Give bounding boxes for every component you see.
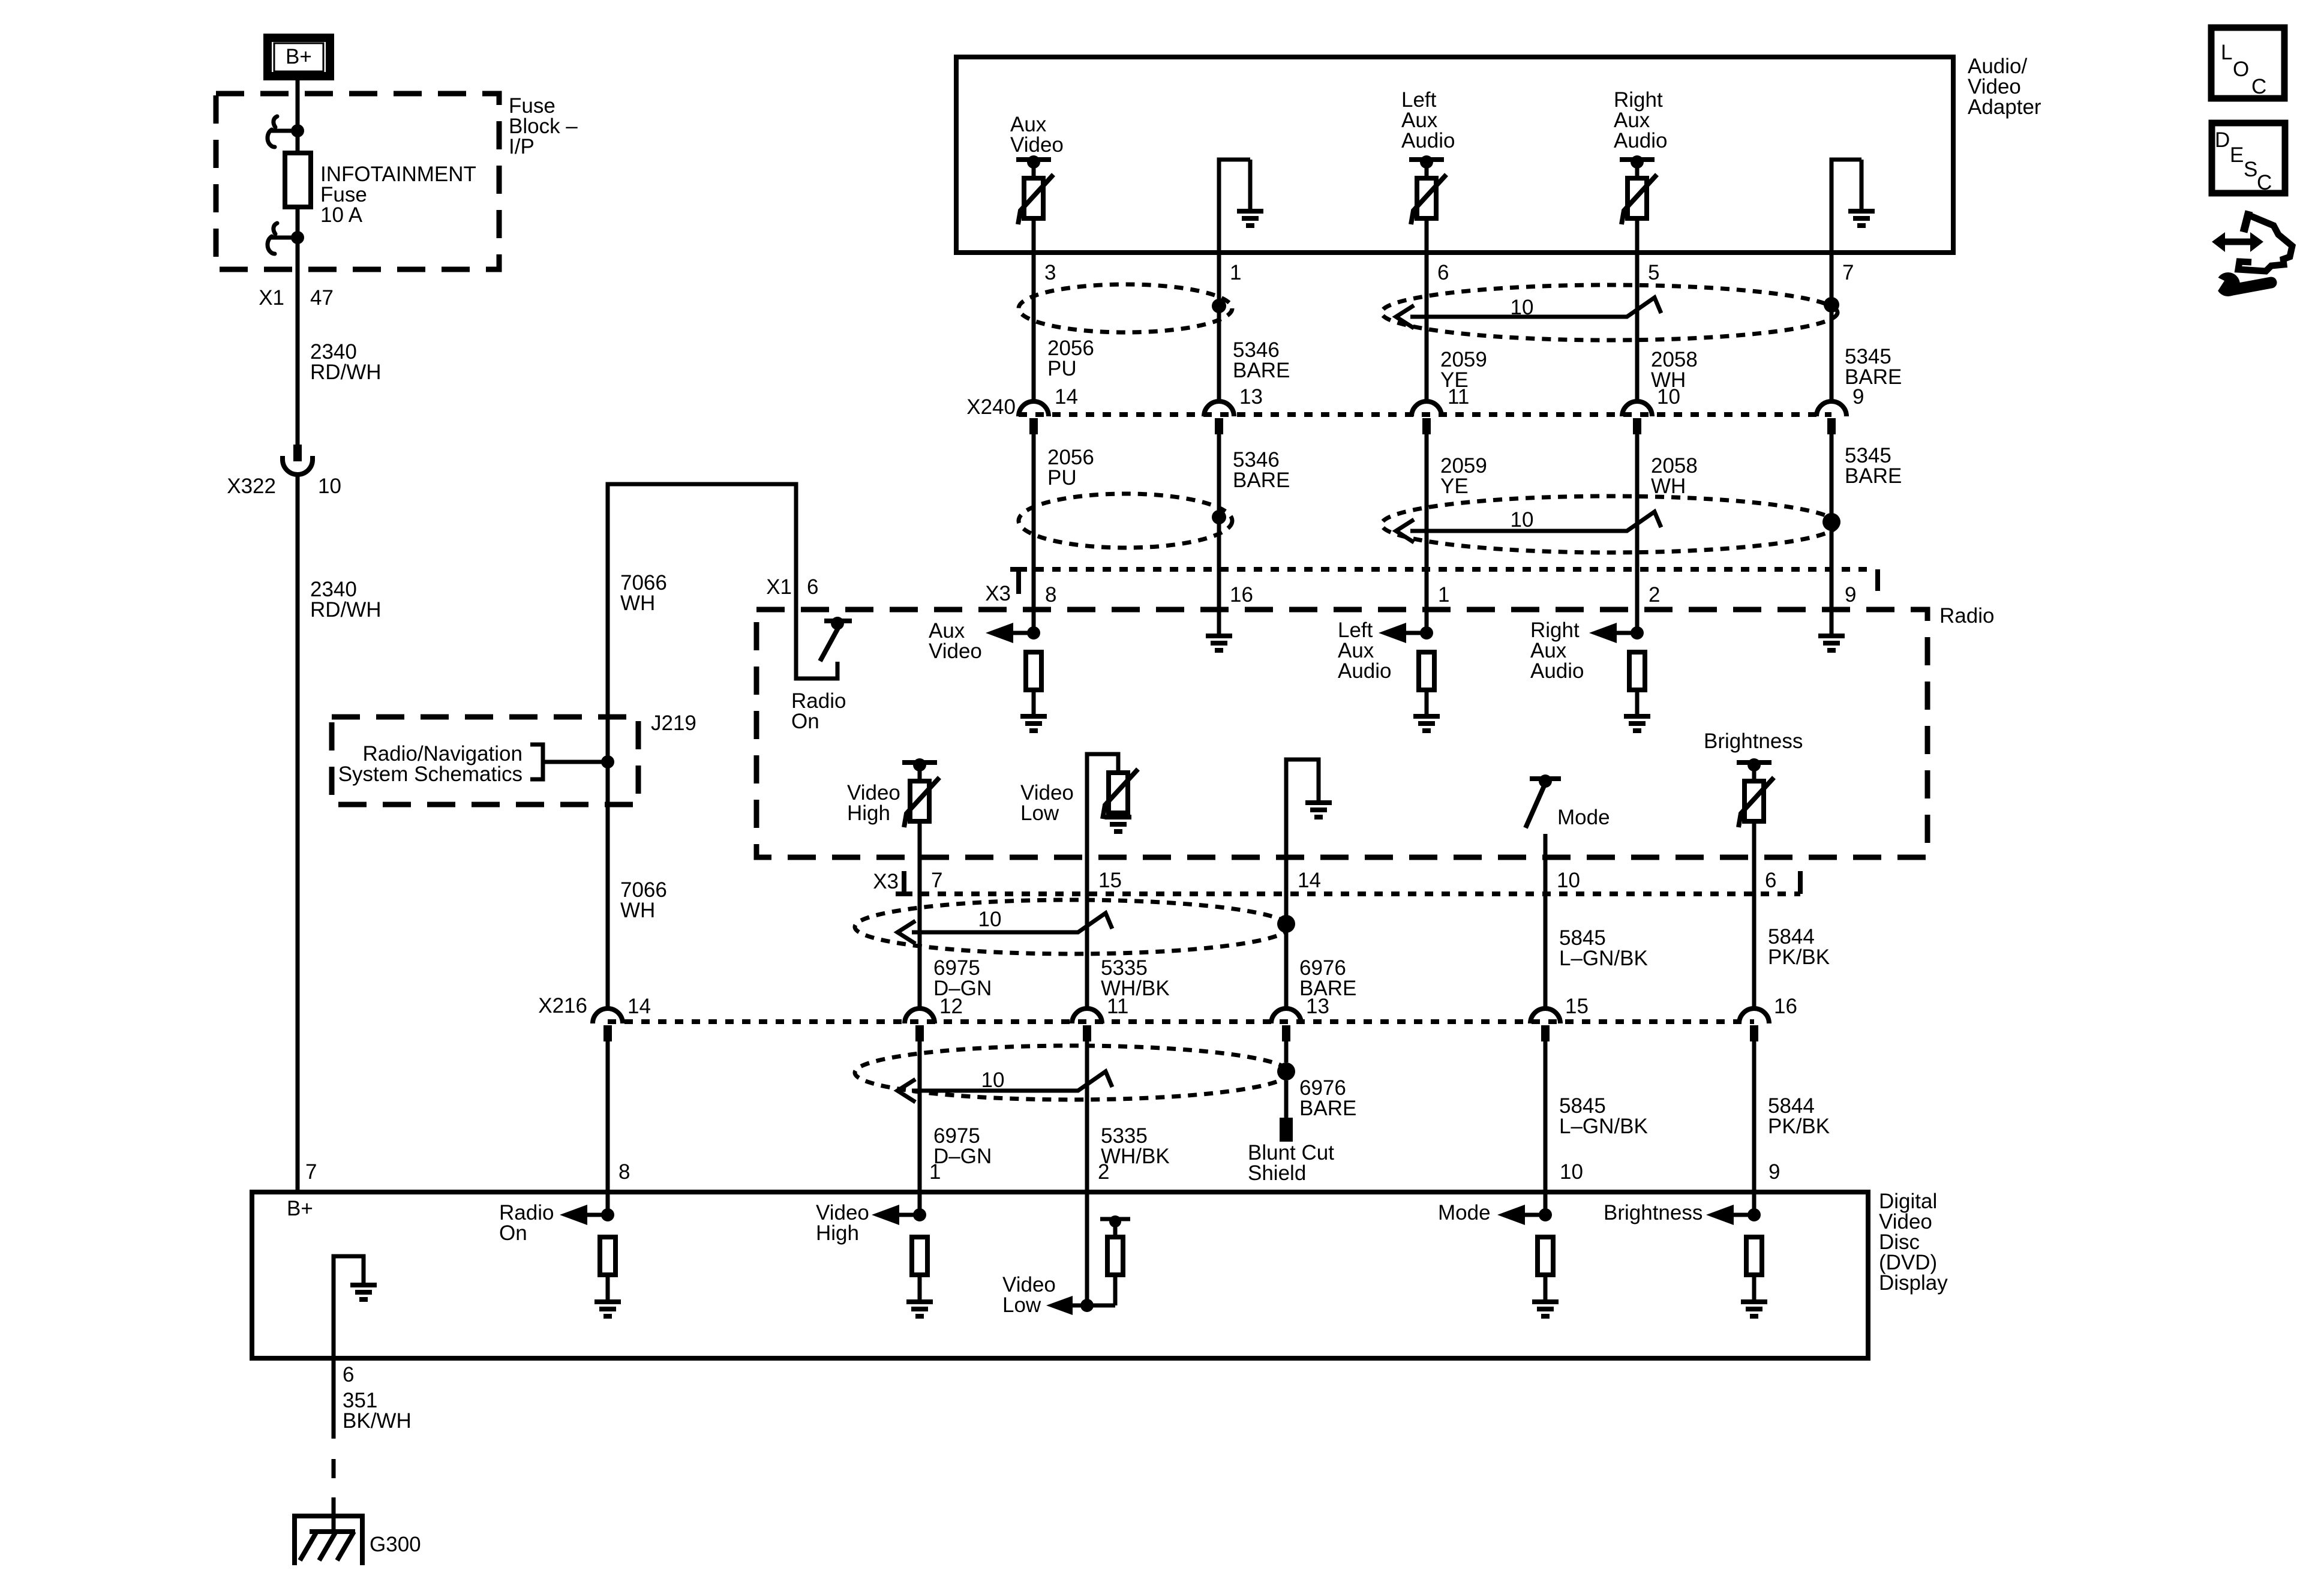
svg-text:C: C (2251, 75, 2266, 98)
svg-text:14: 14 (1298, 869, 1321, 892)
wire left aux audio pin 6 (1425, 218, 1429, 400)
svg-text:Video: Video (1010, 133, 1064, 157)
svg-text:6: 6 (343, 1363, 354, 1386)
connector row X3 (radio top) dotted line (1019, 567, 1867, 572)
drain wire symbol (video upper) (897, 913, 1112, 944)
svg-text:7: 7 (931, 869, 942, 892)
svg-text:X216: X216 (538, 994, 587, 1017)
ground return wire pin 7 inside adapter (1831, 160, 1861, 400)
svg-text:9: 9 (1768, 1160, 1780, 1184)
connector X240 cavity 13 (1204, 401, 1234, 416)
svg-text:10: 10 (978, 908, 1002, 931)
resistor right aux audio termination (radio) (1629, 652, 1645, 690)
svg-text:2: 2 (1649, 583, 1660, 607)
connector X216 cavity 12 (905, 1008, 935, 1023)
svg-text:7: 7 (305, 1160, 317, 1184)
terminal dot video low bar (1109, 1215, 1121, 1227)
svg-text:Mode: Mode (1557, 806, 1610, 829)
svg-text:6: 6 (807, 575, 818, 599)
svg-text:1: 1 (1230, 261, 1241, 284)
svg-text:RD/WH: RD/WH (310, 598, 382, 622)
signal arrow Mode (DVD) (1497, 1205, 1552, 1225)
wire 5346 BARE to radio ground (1217, 633, 1221, 635)
svg-text:WH: WH (620, 592, 655, 615)
svg-text:10: 10 (1657, 385, 1680, 409)
svg-text:10: 10 (318, 475, 341, 498)
resistor brightness input (DVD) (1746, 1237, 1762, 1275)
svg-text:47: 47 (310, 286, 334, 310)
svg-text:BK/WH: BK/WH (343, 1409, 412, 1433)
repair legend icon: double arrow (2212, 232, 2263, 252)
svg-text:Radio: Radio (1939, 604, 1994, 628)
svg-text:PU: PU (1047, 357, 1077, 380)
svg-text:PK/BK: PK/BK (1768, 1115, 1830, 1138)
svg-text:C: C (2257, 171, 2272, 194)
LOC legend box (2211, 28, 2284, 98)
svg-text:X3: X3 (985, 582, 1011, 605)
svg-text:RD/WH: RD/WH (310, 361, 382, 384)
wire video low X3 pin 15 (1087, 754, 1118, 1007)
svg-text:9: 9 (1852, 385, 1864, 409)
wire fuse block exit pin 47 (296, 236, 300, 445)
svg-text:L–GN/BK: L–GN/BK (1559, 1115, 1648, 1138)
connector X240 cavity 14 (1019, 401, 1049, 416)
svg-text:X240: X240 (966, 395, 1016, 419)
svg-text:12: 12 (939, 995, 963, 1018)
wire 7066 WH lower (606, 762, 610, 1007)
svg-text:2: 2 (1098, 1160, 1109, 1184)
svg-text:PU: PU (1047, 466, 1077, 490)
shield ground (radio, pin 14) (1305, 803, 1332, 817)
signal arrow Aux Video (986, 623, 1040, 643)
shield junction on 6976 BARE (upper) (1277, 915, 1295, 933)
clip terminal bottom (268, 223, 304, 254)
wire video low termination branch (1100, 1219, 1130, 1305)
svg-text:13: 13 (1239, 385, 1263, 409)
svg-text:J219: J219 (651, 712, 696, 735)
svg-text:O: O (2233, 58, 2249, 81)
twisted pair aux video / shield (lower) (1019, 494, 1232, 548)
repair legend icon: connector outline (2238, 211, 2292, 271)
svg-text:Adapter: Adapter (1968, 95, 2041, 119)
drain wire symbol (lower) (1396, 512, 1661, 542)
variable resistor video high source (radio) (902, 758, 939, 827)
svg-text:Display: Display (1879, 1271, 1948, 1295)
Digital Video Disc (DVD) Display module box (252, 1192, 1868, 1358)
signal arrow Left Aux Audio (1379, 623, 1433, 643)
svg-text:Video: Video (929, 640, 982, 663)
svg-text:BARE: BARE (1845, 464, 1902, 488)
svg-text:G300: G300 (370, 1533, 421, 1556)
wire video high X3 pin 7 (918, 821, 922, 1007)
ground below left aux audio resistor (1413, 716, 1440, 731)
variable resistor left aux audio (Audio/Video Adapter) (1409, 155, 1446, 224)
wires below X240 (1032, 434, 1036, 566)
connector X216 cavity 11 (1072, 1008, 1102, 1023)
svg-text:7: 7 (1842, 261, 1854, 284)
ground below mode resistor (1532, 1302, 1559, 1316)
svg-text:X322: X322 (227, 475, 276, 498)
svg-text:14: 14 (1055, 385, 1078, 409)
wire mode X3 pin 10 (1544, 834, 1548, 1007)
connector X240 cavity 9 (1816, 401, 1846, 416)
ground symbol inside adapter (right) (1848, 211, 1875, 226)
svg-text:Audio: Audio (1530, 659, 1584, 683)
svg-text:11: 11 (1448, 385, 1469, 409)
internal chassis ground (DVD) (350, 1285, 377, 1299)
resistor aux video termination (radio) (1026, 652, 1041, 690)
wires X3 into radio (1032, 566, 1036, 633)
twisted pair aux audio / shield (upper) (1382, 285, 1837, 340)
svg-text:1: 1 (1438, 583, 1449, 607)
svg-text:WH: WH (1651, 475, 1686, 498)
svg-text:Low: Low (1020, 801, 1059, 825)
twisted pair video / shield (lower) (855, 1046, 1289, 1100)
svg-text:L–GN/BK: L–GN/BK (1559, 947, 1648, 970)
svg-text:6: 6 (1765, 869, 1776, 892)
svg-text:E: E (2230, 143, 2244, 167)
twisted pair aux video / shield (upper) (1019, 284, 1232, 332)
connector X240 cavity 10 (1622, 401, 1652, 416)
bracket left X3 lower (896, 871, 904, 894)
svg-text:X3: X3 (873, 870, 899, 893)
twisted pair aux audio / shield (lower) (1382, 496, 1837, 553)
wire 5345 BARE to radio ground (1830, 633, 1834, 635)
svg-text:WH: WH (620, 899, 655, 922)
ground below aux video resistor (1020, 716, 1047, 731)
svg-text:D–GN: D–GN (933, 1145, 992, 1168)
shield junction on 5346 BARE (upper) (1212, 299, 1226, 313)
svg-text:B+: B+ (287, 1197, 313, 1220)
svg-text:15: 15 (1565, 995, 1589, 1018)
svg-text:10: 10 (1511, 296, 1534, 319)
connector X322 pin 10 (283, 445, 313, 475)
svg-text:8: 8 (1045, 583, 1056, 607)
resistor left aux audio termination (radio) (1419, 652, 1434, 690)
ground below right aux audio resistor (1624, 716, 1650, 731)
wire fuse to clip bottom (296, 207, 300, 236)
shield junction on 5345 BARE (upper) (1824, 297, 1839, 313)
svg-text:WH/BK: WH/BK (1101, 1145, 1170, 1168)
Radio module dashed box (756, 610, 1927, 857)
svg-text:15: 15 (1098, 869, 1122, 892)
svg-text:Brightness: Brightness (1604, 1201, 1703, 1224)
ground below video high resistor (906, 1302, 933, 1316)
svg-text:YE: YE (1440, 475, 1469, 498)
svg-text:10: 10 (1560, 1160, 1583, 1184)
ground below radio on resistor (594, 1302, 621, 1316)
svg-text:Audio: Audio (1401, 129, 1455, 152)
splice pack J219 dashed box (332, 717, 638, 804)
Audio/Video Adapter module box (956, 57, 1953, 253)
wire brightness X3 pin 6 (1752, 821, 1756, 1007)
resistor mode input (DVD) (1538, 1237, 1553, 1275)
switch Radio On (in radio) (820, 617, 852, 661)
connector X216 cavity 16 (1739, 1008, 1769, 1023)
svg-text:X1: X1 (259, 286, 284, 310)
shield ground (radio, pin 16) (1206, 636, 1232, 650)
svg-text:1: 1 (929, 1160, 941, 1184)
svg-text:High: High (847, 801, 890, 825)
wire B+ to fuse block (296, 80, 300, 130)
svg-text:11: 11 (1107, 995, 1128, 1018)
svg-text:PK/BK: PK/BK (1768, 945, 1830, 969)
ground G300 symbol (295, 1516, 362, 1565)
svg-text:10: 10 (1557, 869, 1580, 892)
ground below brightness resistor (1741, 1302, 1767, 1316)
bracket right X3 lower (1798, 871, 1803, 894)
svg-text:BARE: BARE (1233, 469, 1290, 492)
fuse block I/P dashed box (216, 94, 499, 269)
signal arrow Video Low (DVD) (1046, 1296, 1115, 1315)
svg-text:Mode: Mode (1438, 1201, 1491, 1224)
wire right aux audio pin 5 (1635, 218, 1640, 400)
svg-text:B+: B+ (286, 45, 312, 68)
resistor video high input (DVD) (912, 1237, 927, 1275)
svg-text:16: 16 (1230, 583, 1253, 607)
connector X240 cavity 11 (1412, 401, 1442, 416)
shield junction on 5345 BARE (lower) (1822, 513, 1840, 531)
svg-text:10 A: 10 A (320, 203, 363, 227)
resistor video low termination (DVD) (1107, 1237, 1123, 1275)
svg-text:9: 9 (1845, 583, 1856, 607)
svg-text:14: 14 (627, 995, 651, 1018)
bracket and wire to J219 splice (530, 745, 614, 779)
twisted pair video / shield (upper) (855, 900, 1289, 954)
variable resistor right aux audio (Audio/Video Adapter) (1620, 155, 1657, 224)
connector row X3 (radio bottom) dotted line (904, 891, 1800, 896)
svg-text:System Schematics: System Schematics (338, 763, 523, 786)
connector row X216 dotted line (608, 1019, 1754, 1024)
ground symbol inside adapter (left) (1237, 211, 1263, 226)
bracket right X3 upper (1875, 569, 1880, 591)
svg-text:5: 5 (1648, 261, 1659, 284)
svg-text:On: On (499, 1221, 527, 1245)
svg-text:Audio: Audio (1614, 129, 1668, 152)
signal arrow Brightness (DVD) (1706, 1205, 1761, 1225)
svg-text:BARE: BARE (1233, 359, 1290, 382)
svg-text:High: High (816, 1221, 859, 1245)
wire shield stub X3 pin 14 to ground (1286, 760, 1319, 1007)
connector X216 cavity 13 (1271, 1008, 1301, 1023)
shield ground (radio, pin 9) (1818, 636, 1845, 650)
drain wire symbol (upper) (1396, 298, 1661, 328)
variable resistor video low to ground (radio) (1103, 769, 1138, 819)
fuse F INFOTAINMENT 10A (285, 153, 311, 207)
clip terminal top (268, 116, 304, 147)
svg-text:10: 10 (981, 1068, 1005, 1092)
ground return wire pin 1 inside adapter (1219, 160, 1250, 400)
repair legend icon: wrench (2209, 272, 2271, 296)
svg-text:Low: Low (1002, 1293, 1041, 1317)
svg-text:BARE: BARE (1299, 1097, 1356, 1120)
variable resistor brightness (radio) (1737, 758, 1774, 827)
signal arrow Radio On (DVD) (560, 1205, 614, 1225)
svg-text:I/P: I/P (509, 135, 535, 158)
svg-text:3: 3 (1044, 261, 1056, 284)
shield junction on 6976 BARE (lower) (1277, 1062, 1295, 1080)
battery feed B+ terminal box (268, 38, 330, 76)
svg-text:Brightness: Brightness (1704, 730, 1803, 753)
svg-text:X1: X1 (766, 575, 792, 599)
wire 7066 WH riser and branch to radio X1-6 (608, 484, 837, 762)
DESC legend box (2212, 123, 2285, 194)
blunt cut shield stub (1280, 1080, 1293, 1142)
wire clip to fuse (296, 130, 300, 153)
connector row X240 dotted line (1019, 412, 1831, 417)
wire aux video pin 3 (1032, 218, 1036, 400)
drain wire symbol (video lower) (897, 1071, 1112, 1102)
svg-text:8: 8 (618, 1160, 630, 1184)
wire 2340 RD/WH to DVD display pin 7 (296, 475, 300, 1192)
svg-text:13: 13 (1306, 995, 1329, 1018)
wire 351 BK/WH pin 6 (332, 1358, 336, 1532)
switch Mode (in radio) (1526, 775, 1561, 828)
svg-text:Shield: Shield (1248, 1161, 1306, 1185)
svg-text:6: 6 (1437, 261, 1449, 284)
resistor radio on input (DVD) (600, 1237, 615, 1275)
signal arrow Video High (DVD) (872, 1205, 926, 1225)
ground below video low resistor (1105, 817, 1131, 831)
internal ground wire of DVD display (334, 1256, 364, 1358)
svg-text:On: On (791, 710, 819, 733)
connector X216 cavity 14 (593, 1008, 623, 1023)
connector X216 cavity 15 (1530, 1008, 1560, 1023)
wires below X216 (918, 1041, 922, 1215)
svg-text:D: D (2215, 128, 2230, 152)
svg-text:L: L (2221, 41, 2232, 64)
bracket left X3 upper (1010, 569, 1019, 594)
svg-text:16: 16 (1774, 995, 1797, 1018)
svg-text:Audio: Audio (1338, 659, 1392, 683)
svg-text:S: S (2244, 158, 2257, 181)
variable resistor aux video output (Audio/Video Adapter) (1016, 155, 1053, 224)
shield junction on 5346 BARE (lower) (1212, 510, 1226, 524)
svg-text:10: 10 (1511, 508, 1534, 532)
signal arrow Right Aux Audio (1589, 623, 1644, 643)
